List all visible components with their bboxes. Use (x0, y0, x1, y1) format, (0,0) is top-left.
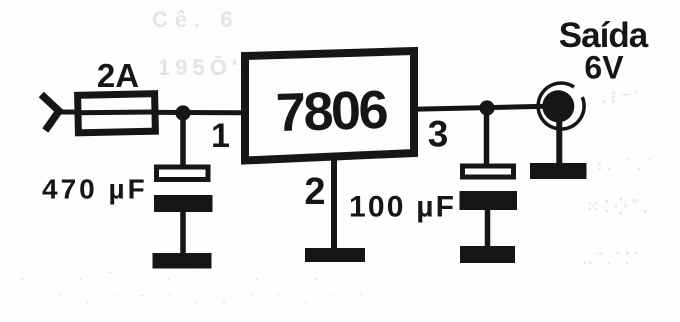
regulator U1 7806 body (245, 51, 414, 161)
svg-text:1: 1 (211, 117, 230, 155)
wire: C2 to ground (485, 210, 491, 247)
ground (C1) (153, 253, 212, 269)
wire: pin 3 of 7806 to output connector (413, 106, 546, 109)
input chevron (41, 95, 59, 131)
svg-text:․ ˙ ․ ¨ ˙ ․ ˙ ˙ ․ ˙ ․ ˙ ˙: ․ ˙ ․ ¨ ˙ ․ ˙ ˙ ․ ˙ ․ ˙ ˙ (20, 269, 387, 283)
svg-text:6V: 6V (584, 50, 624, 86)
svg-text:Cê. 6: Cê. 6 (152, 7, 240, 32)
wire: node A down to C1 (180, 113, 186, 166)
output connector ring (538, 83, 584, 129)
capacitor C2 100uF bottom plate (460, 191, 518, 210)
svg-text:։․ ˙․˙: ։․ ˙․˙ (597, 157, 656, 174)
wire: pin 2 to ground (331, 160, 337, 250)
svg-text:⁙⁚⁛˚․: ⁙⁚⁛˚․ (586, 197, 653, 216)
svg-text:7806: 7806 (275, 80, 388, 143)
svg-text:2: 2 (304, 171, 325, 213)
svg-text:˙ ․ ˙ ¨ ˙ ․ ․ ˙ ˙ ․ ˙ ˙: ˙ ․ ˙ ¨ ˙ ․ ․ ˙ ˙ ․ ˙ ˙ (58, 292, 373, 306)
fuse F1 element line (78, 110, 155, 116)
ground (connector) (530, 163, 587, 179)
wire: C1 to ground (180, 212, 186, 254)
svg-text:3: 3 (428, 114, 449, 155)
node A (input node) (175, 105, 190, 120)
svg-text:2A: 2A (97, 57, 139, 94)
capacitor C2 100uF top plate (463, 166, 514, 177)
ground (C2) (460, 246, 515, 263)
ground (pin 2) (305, 248, 365, 262)
wire: connector to ground (556, 120, 562, 164)
svg-text:100 µF: 100 µF (349, 191, 456, 224)
node B (output node) (479, 100, 494, 115)
capacitor C1 470uF bottom plate (154, 195, 213, 212)
wire: input chevron to pin 1 of 7806 (59, 110, 241, 116)
fuse F1 body (78, 94, 156, 133)
capacitor C1 470uF top plate (157, 167, 209, 180)
svg-text:‥¨․˙⁚˙: ‥¨․˙⁚˙ (582, 251, 643, 268)
svg-text:470 µF: 470 µF (42, 174, 148, 205)
output connector contact (542, 90, 574, 122)
wire: node B down to C2 (484, 108, 490, 165)
svg-text:․⁝⁻⁡˙: ․⁝⁻⁡˙ (601, 88, 643, 107)
